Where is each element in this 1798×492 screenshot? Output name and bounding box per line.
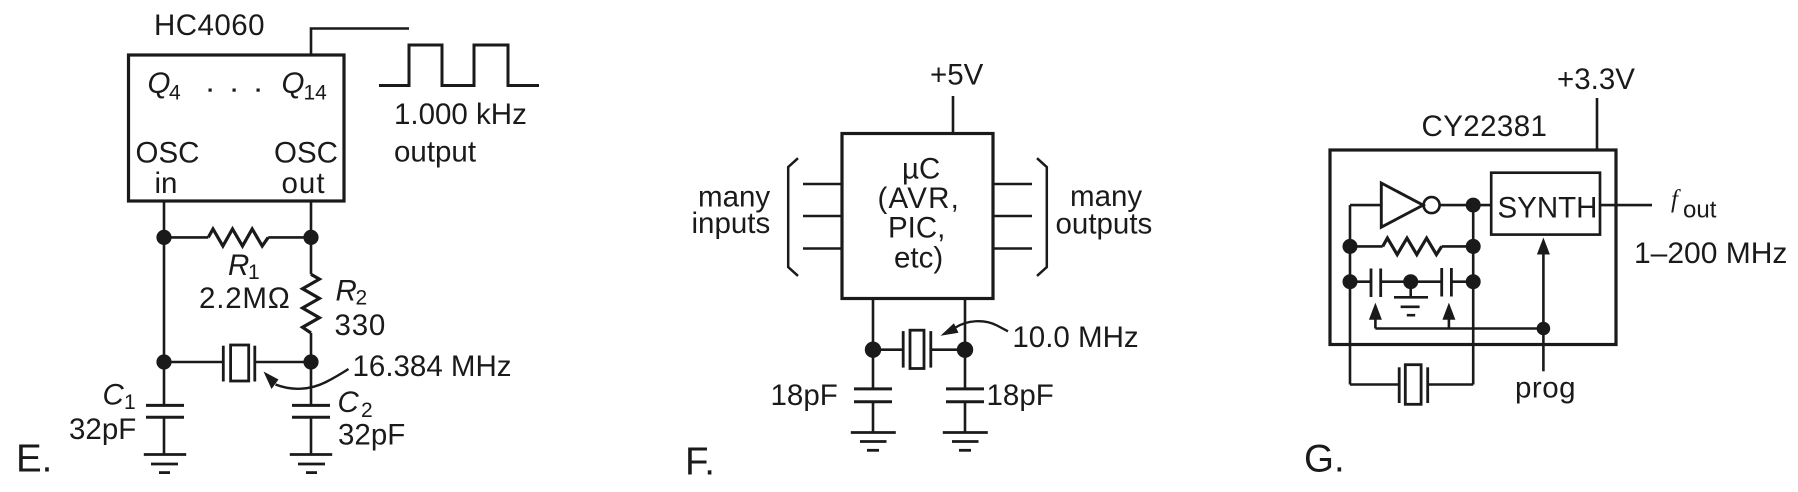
- svg-text:C: C: [338, 386, 360, 419]
- svg-text:330: 330: [335, 309, 387, 342]
- svg-text:HC4060: HC4060: [154, 9, 265, 42]
- svg-text:14: 14: [304, 82, 328, 105]
- svg-text:2: 2: [356, 287, 368, 310]
- svg-text:OSC: OSC: [274, 137, 338, 170]
- svg-text:in: in: [155, 167, 178, 200]
- svg-text:18pF: 18pF: [987, 379, 1054, 412]
- svg-text:1: 1: [248, 261, 260, 284]
- svg-text:2.2MΩ: 2.2MΩ: [199, 282, 291, 315]
- svg-text:prog: prog: [1515, 372, 1576, 405]
- svg-text:R: R: [336, 275, 357, 308]
- svg-text:CY22381: CY22381: [1422, 110, 1548, 143]
- svg-text:+3.3V: +3.3V: [1557, 63, 1635, 96]
- svg-text:output: output: [394, 136, 476, 169]
- svg-text:10.0 MHz: 10.0 MHz: [1012, 321, 1138, 354]
- svg-text:inputs: inputs: [692, 207, 771, 240]
- svg-text:OSC: OSC: [136, 137, 200, 170]
- svg-text:out: out: [282, 167, 326, 200]
- svg-text:Q: Q: [282, 67, 305, 100]
- svg-text:1–200 MHz: 1–200 MHz: [1634, 237, 1787, 270]
- svg-text:(AVR,: (AVR,: [878, 182, 961, 215]
- svg-text:1: 1: [124, 391, 136, 414]
- svg-text:18pF: 18pF: [771, 379, 838, 412]
- svg-text:1.000 kHz: 1.000 kHz: [394, 98, 527, 131]
- svg-text:16.384 MHz: 16.384 MHz: [353, 350, 512, 383]
- svg-text:PIC,: PIC,: [888, 212, 945, 245]
- svg-text:Q: Q: [148, 67, 171, 100]
- svg-text:E.: E.: [16, 438, 52, 481]
- svg-text:G.: G.: [1304, 438, 1345, 481]
- svg-text:out: out: [1683, 197, 1717, 224]
- svg-text:outputs: outputs: [1056, 208, 1153, 241]
- svg-text:etc): etc): [894, 242, 943, 275]
- svg-text:f: f: [1671, 186, 1681, 213]
- svg-text:32pF: 32pF: [338, 419, 405, 452]
- svg-text:F.: F.: [685, 441, 715, 484]
- svg-text:32pF: 32pF: [69, 413, 136, 446]
- svg-text:SYNTH: SYNTH: [1498, 192, 1598, 225]
- svg-text:+5V: +5V: [930, 59, 984, 92]
- svg-text:R: R: [228, 249, 249, 282]
- svg-text:C: C: [103, 379, 125, 412]
- svg-text:µC: µC: [902, 153, 940, 186]
- svg-text:4: 4: [169, 82, 181, 105]
